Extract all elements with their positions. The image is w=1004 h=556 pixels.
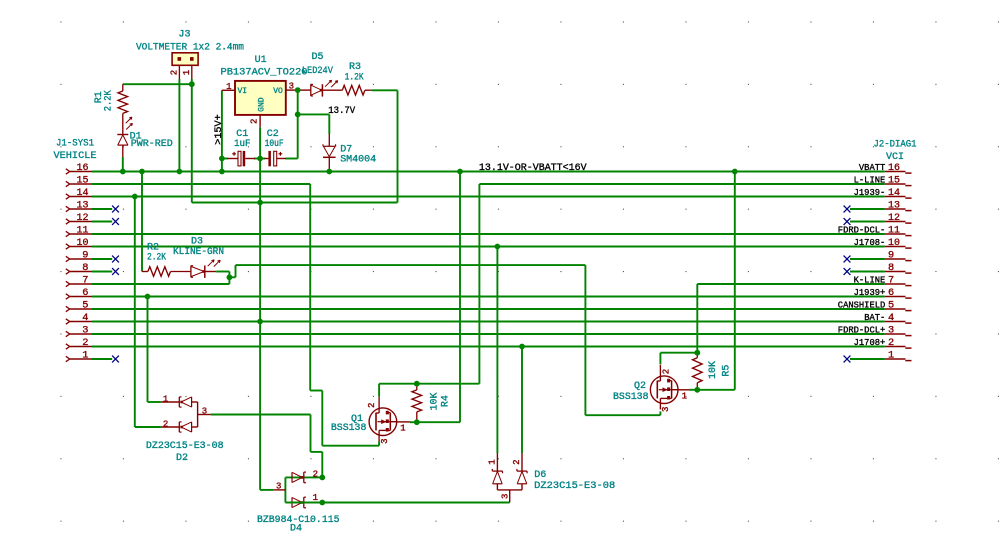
svg-text:PB137ACV_TO220: PB137ACV_TO220 [221,68,308,79]
wire C2 right link [285,158,297,160]
svg-text:14: 14 [77,188,89,199]
connector J2 pin 6 [854,288,912,299]
wire J3 pin1 drop [191,79,193,203]
wire D3 output jog [216,265,235,284]
net label 13.7V [328,106,355,117]
svg-text:13: 13 [888,201,900,212]
svg-text:DZ23C15-E3-08: DZ23C15-E3-08 [534,481,615,492]
J3 pin 1 stub [182,65,192,79]
diode D7 labels [340,145,376,166]
connector J1 pin 1 [66,351,92,362]
svg-text:11: 11 [888,226,900,237]
svg-text:14: 14 [888,188,900,199]
no-connect X J2 pin 12 [844,218,851,225]
connector J2 pin 5 [838,301,912,312]
svg-text:3: 3 [289,81,294,91]
wire D2 pin2 drop from J1939- [135,197,161,428]
junction D7-VBATT [326,169,332,175]
svg-text:VOLTMETER 1x2 2.4mm: VOLTMETER 1x2 2.4mm [136,43,244,54]
connector J2 pin 1 [885,351,912,362]
connector J2 pin 16 [859,163,912,174]
resistor R4 [412,384,422,423]
svg-text:7: 7 [82,276,88,287]
wire J3 feed horizontal [123,83,192,85]
svg-text:R4: R4 [441,395,452,407]
connector J2 pin 9 [885,251,912,262]
wire Q1 gate jog [379,384,417,397]
connector J2 pin 4 [864,313,911,324]
svg-text:3: 3 [202,407,207,417]
svg-text:VI: VI [238,87,248,96]
regulator U1 labels [221,55,308,79]
no-connect X J1 pin 12 [112,218,119,225]
junction R4drop-VBATT [457,169,463,175]
svg-text:6: 6 [888,288,894,299]
no-connect X J2 pin 1 [844,356,851,363]
svg-text:8: 8 [888,263,894,274]
capacitor C2 [265,151,286,166]
svg-text:VO: VO [273,87,283,96]
connector J2 pin 12 [885,213,912,224]
wire net row 16 [92,171,885,173]
svg-text:9: 9 [888,251,894,262]
U1 pin 2 GND [250,115,261,127]
no-connect X J1 pin 9 [112,256,119,263]
svg-text:VCI: VCI [886,152,904,163]
wire J1708- drop to D6 pin1 [496,247,498,454]
svg-text:10: 10 [77,238,89,249]
wire D2 pin3 to D4 pin2 [211,415,323,478]
wire Q1 drain link [410,421,417,423]
svg-text:LED24V: LED24V [302,66,333,77]
svg-text:1: 1 [487,459,497,464]
svg-text:3: 3 [661,407,671,412]
wire U1 VO drop [297,90,299,158]
svg-text:15: 15 [888,176,900,187]
wire Q2 gate jog [660,353,697,365]
zener D4 labels [257,515,340,535]
wire J1708+ drop to D6 pin2 [521,347,523,454]
wire U1 VI drop [221,90,223,171]
svg-text:R5: R5 [721,365,732,377]
svg-text:2: 2 [661,369,671,374]
svg-text:D6: D6 [534,470,546,481]
svg-text:>15V+: >15V+ [214,114,225,145]
junction Q2drop-VBATT [732,169,738,175]
connector J2 pin 15 [854,176,912,187]
svg-text:6: 6 [82,288,88,299]
svg-text:1: 1 [226,82,231,92]
wire GND vertical [260,127,273,490]
wire J3 pin2 drop to VBATT [178,79,180,172]
wire K-LINE J2 drop [696,284,698,353]
wire VBATT to R4 drop [417,172,460,423]
resistor R3 [342,85,371,95]
svg-text:SM4004: SM4004 [340,155,376,166]
regulator U1 body [235,81,286,115]
connector J1 pin 14 [66,188,92,199]
svg-text:3: 3 [276,482,281,492]
connector J1 pin 6 [66,288,92,299]
connector J1 pin 8 [66,263,92,274]
resistor R1 [118,84,128,134]
svg-text:2: 2 [367,403,377,408]
zener D2 [161,395,211,433]
LED D3 [191,260,220,278]
connector J1 pin 11 [66,226,92,237]
wire stub J2 pin 1 [850,358,885,360]
junction D4 pin1 [319,500,325,506]
connector J2 pin 3 [838,326,912,337]
svg-text:12: 12 [888,213,900,224]
svg-text:R3: R3 [349,62,361,73]
svg-text:3: 3 [380,438,390,443]
junction D4 pin2 [319,475,325,481]
wire net row 10 [92,246,885,248]
junction D2.2-J1939- [132,194,138,200]
zener D2 labels [146,441,224,464]
svg-text:4: 4 [82,313,88,324]
svg-text:1: 1 [182,70,192,75]
connector J2 pin 11 [838,226,912,237]
wire stub J2 pin 9 [850,258,885,260]
svg-text:U1: U1 [255,55,267,66]
connector J2 pin 14 [854,188,912,199]
resistor R3 labels [345,62,364,84]
svg-text:16: 16 [77,163,89,174]
LED D3 labels [173,236,224,258]
junction GND-ADJ [257,200,263,206]
LED D1 [117,117,132,157]
wire D1 bottom link [122,157,124,172]
wire D2 pin1 drop from J1939+ [148,297,161,403]
svg-text:5: 5 [888,301,894,312]
connector J1 pin 5 [66,301,92,312]
connector J2 pin 13 [885,201,912,212]
svg-text:10K: 10K [429,393,440,411]
svg-text:1: 1 [163,395,168,405]
wire node 13.7V run [298,114,330,134]
svg-text:13: 13 [77,201,89,212]
diode D7 [323,134,336,170]
junction VI-VBATT [219,169,225,175]
transistor Q2 labels [613,381,649,403]
wire D4 bus routing [285,477,322,502]
wire net row 2 [92,346,885,348]
wire C1-C2 mid link [254,158,265,160]
svg-text:J3: J3 [178,30,190,41]
svg-text:11: 11 [77,226,89,237]
connector J3 body [172,53,198,66]
wire K-LINE right segment [697,283,884,285]
junction D1-VBATT [120,169,126,175]
svg-text:GND: GND [258,97,267,112]
resistor R1 labels [94,90,114,111]
svg-text:16: 16 [888,163,900,174]
wire net row 11 [92,233,885,235]
connector J1 pin 9 [66,251,92,262]
capacitor C1 labels [234,129,251,150]
junction D2.1-J1939+ [145,294,151,300]
junction VO node [295,87,301,93]
no-connect X J2 pin 9 [844,256,851,263]
svg-text:1: 1 [682,391,687,401]
junction R2-VBATT [139,169,145,175]
zener D6 [487,453,527,502]
connector J1-SYS1 label [54,139,97,163]
wire C1 left link [222,158,228,160]
net label >15V+ [214,114,225,145]
svg-text:BSS138: BSS138 [331,423,367,434]
junction 13.7V node [295,112,301,118]
wire net row 6 [92,296,885,298]
svg-text:J2-DIAG1: J2-DIAG1 [874,140,917,151]
junction D6.1-J1708- [495,244,501,250]
wire D4 pin1 to D6 pin3 [285,502,509,504]
U1 pin 1 VI [222,82,235,92]
connector J2 pin 2 [854,338,912,349]
wire L-LINE left segment [92,183,310,185]
capacitor C2 labels [265,129,284,150]
junction C1-C2 GND [257,156,263,162]
svg-text:1uF: 1uF [234,139,251,150]
svg-text:9: 9 [82,251,88,262]
svg-text:2: 2 [82,338,88,349]
wire regulator ADJ run [192,202,398,204]
junction J3.1 feed [189,81,195,87]
connector J1 pin 2 [66,338,92,349]
wire K-LINE left segment [92,283,229,285]
svg-text:J1-SYS1: J1-SYS1 [56,139,94,150]
wire Q2 drain link [689,389,697,391]
wire stub J2 pin 12 [850,221,885,223]
junction R4 top [414,381,420,387]
svg-text:D2: D2 [176,453,188,464]
junction D6.2-J1708+ [519,344,525,350]
connector J2 pin 10 [854,238,912,249]
connector J1 pin 3 [66,326,92,337]
wire stub J1 pin 9 [92,258,112,260]
svg-text:PWR-RED: PWR-RED [131,139,173,150]
connector J1 pin 10 [66,238,92,249]
junction R5 top [694,350,700,356]
svg-text:4: 4 [888,313,894,324]
junction R5 bottom [694,387,700,393]
svg-text:VEHICLE: VEHICLE [54,151,97,162]
junction J3.2-VBATT [177,169,183,175]
connector J2 pin 8 [885,263,912,274]
wire VBATT to Q2 drain drop [697,172,735,390]
no-connect X J1 pin 8 [112,268,119,275]
svg-text:1.2K: 1.2K [345,72,364,83]
wire stub J1 pin 8 [92,271,112,273]
wire R2 drop from VBATT [141,172,143,272]
wire stub J2 pin 13 [850,208,885,210]
svg-text:7: 7 [888,276,894,287]
connector J2-DIAG1 label [874,140,917,163]
svg-text:13.7V: 13.7V [328,106,355,117]
svg-text:12: 12 [77,213,89,224]
svg-text:3: 3 [82,326,88,337]
connector J2 pin 7 [854,276,912,287]
wire L-LINE right segment [479,183,884,185]
svg-text:Q2: Q2 [634,381,646,392]
wire stub J2 pin 8 [850,271,885,273]
svg-text:5: 5 [82,301,88,312]
resistor R4 labels [429,393,451,411]
connector J1 pin 13 [66,201,92,212]
svg-text:2: 2 [163,420,168,430]
net label 13.1V-OR-VBATT<16V [479,163,587,174]
wire net row 3 [92,333,885,335]
svg-text:D4: D4 [290,524,302,535]
wire L-LINE J2 to R4 drop [417,184,480,384]
svg-text:10: 10 [888,238,900,249]
wire net row 4 [92,321,885,323]
J3 pin 2 stub [169,65,179,79]
svg-text:8: 8 [82,263,88,274]
svg-text:15: 15 [77,176,89,187]
svg-text:3: 3 [500,494,510,499]
junction K-LINE jog [227,274,233,280]
svg-text:3: 3 [888,326,894,337]
svg-text:2: 2 [250,119,260,124]
LED D1 labels [130,132,173,151]
svg-text:1: 1 [82,351,88,362]
svg-text:D3: D3 [191,236,203,247]
svg-text:2.2K: 2.2K [103,90,114,111]
svg-text:2: 2 [888,338,894,349]
svg-text:D5: D5 [312,52,324,63]
zener D6 labels [534,470,615,492]
svg-text:2: 2 [169,70,179,75]
svg-text:10uF: 10uF [265,139,284,150]
connector J3 labels [136,30,244,54]
wire net row 5 [92,308,885,310]
transistor Q1 labels [331,414,367,434]
no-connect X J2 pin 13 [844,206,851,213]
wire L-LINE J1 to Q1 source [310,184,379,446]
zener D4 [273,470,318,508]
no-connect X J1 pin 1 [112,356,119,363]
wire R3 output drop [372,90,398,202]
svg-text:2: 2 [512,459,522,464]
wire net row 14 [92,196,885,198]
LED D5 labels [302,52,333,77]
svg-text:DZ23C15-E3-08: DZ23C15-E3-08 [146,441,224,452]
U1 pin 3 VO [286,81,298,91]
svg-text:1: 1 [888,351,894,362]
svg-text:1: 1 [400,424,405,434]
svg-text:BSS138: BSS138 [613,392,649,403]
junction C1-VI [219,156,225,162]
junction GND-BAT- [257,319,263,325]
transistor Q1 [367,397,410,444]
wire stub J1 pin 12 [92,221,112,223]
svg-text:KLINE-GRN: KLINE-GRN [173,247,224,258]
resistor R5 [693,353,703,390]
wire stub J1 pin 13 [92,208,112,210]
wire K-LINE to Q2 source run [236,265,661,415]
wire stub J1 pin 1 [92,358,112,360]
no-connect X J1 pin 13 [112,206,119,213]
connector J1 pin 15 [66,176,92,187]
svg-text:2: 2 [313,470,318,480]
no-connect X J2 pin 8 [844,268,851,275]
connector J1 pin 16 [66,163,92,174]
resistor R5 labels [708,361,732,379]
svg-text:2.2K: 2.2K [147,253,166,264]
transistor Q2 [650,365,689,412]
connector J1 pin 7 [66,276,92,287]
svg-text:10K: 10K [708,361,719,379]
connector J1 pin 4 [66,313,92,324]
junction R4 bottom [414,419,420,425]
resistor R2 labels [147,243,166,264]
resistor R2 [142,267,191,277]
svg-text:13.1V-OR-VBATT<16V: 13.1V-OR-VBATT<16V [479,163,587,174]
connector J1 pin 12 [66,213,92,224]
LED D5 [298,80,343,96]
capacitor C1 [227,151,255,166]
